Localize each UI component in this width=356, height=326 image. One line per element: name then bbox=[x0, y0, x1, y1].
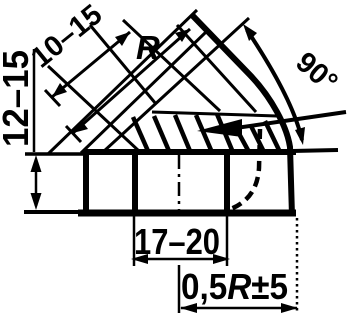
dim 12-15 line bbox=[35, 160, 38, 206]
wedge top line bbox=[152, 112, 277, 116]
internal vertical V2 bbox=[224, 150, 230, 215]
dim 17-20 line bbox=[134, 258, 227, 261]
arrowhead dim 12-15 down bbox=[31, 193, 42, 210]
leg inner edge L2 bbox=[81, 32, 206, 153]
reference line L3 (90 deg leg) bbox=[103, 18, 249, 152]
dim 0,5R left extension bbox=[178, 265, 181, 313]
arrowhead dim 10-15 ne bbox=[115, 32, 130, 46]
extension stub at 10-15 sw arrow bbox=[45, 90, 60, 106]
dim 0,5R line bbox=[181, 307, 297, 310]
fold line E3 bbox=[123, 20, 220, 111]
arrowhead 0,5R left bbox=[180, 303, 197, 313]
arrowhead 0,5R right bbox=[281, 303, 298, 313]
extension stub at R sw arrow bbox=[66, 126, 81, 142]
arrowhead dim 10-15 sw bbox=[52, 83, 67, 97]
arrowhead arc bottom bbox=[295, 127, 305, 145]
leg outer edge L1 bbox=[48, 10, 197, 154]
svg-text:17–20: 17–20 bbox=[134, 221, 220, 262]
dim 17-20 left extension bbox=[133, 216, 136, 266]
dim 0,5R right extension (dotted) bbox=[296, 218, 299, 314]
top edge thin extension left bbox=[25, 152, 84, 156]
arrowhead force arrow bbox=[197, 119, 242, 137]
die block left edge bbox=[83, 150, 89, 213]
fold line E2 bbox=[90, 25, 156, 104]
die block bottom edge bbox=[78, 210, 296, 217]
hatch strokes right group bbox=[237, 130, 249, 152]
dim 17-20 right extension bbox=[226, 216, 229, 266]
fold line E4 bbox=[177, 25, 256, 112]
dim 12-15 extension vertical bbox=[33, 49, 36, 152]
dimension line R bbox=[73, 29, 190, 133]
arrowhead dim 12-15 up bbox=[31, 155, 42, 172]
dimension line 10-15 bbox=[52, 32, 130, 97]
svg-text:0,5R±5: 0,5R±5 bbox=[181, 266, 288, 307]
die block top edge bbox=[83, 149, 296, 155]
internal vertical V1 bbox=[132, 152, 138, 213]
svg-text:12–15: 12–15 bbox=[0, 50, 36, 147]
top edge extension right bbox=[292, 150, 338, 151]
force arrow shaft bbox=[222, 112, 346, 130]
hatch strokes left group bbox=[133, 117, 148, 151]
centerline (dash-dot) bbox=[178, 155, 181, 210]
arrowhead dim R ne bbox=[175, 29, 190, 42]
bent leg thick edge T curving into right edge bbox=[192, 15, 292, 216]
arrowhead arc top bbox=[243, 24, 257, 41]
svg-text:R: R bbox=[136, 29, 160, 66]
dashed bend curve bbox=[228, 129, 260, 210]
arrowhead 17-20 left bbox=[131, 254, 148, 264]
fold line E1 bbox=[48, 66, 140, 152]
90 degree arc bbox=[247, 30, 302, 140]
arrowhead 17-20 right bbox=[213, 254, 230, 264]
arrowhead dim R sw bbox=[73, 120, 88, 133]
bottom edge thin extension left bbox=[24, 210, 78, 214]
